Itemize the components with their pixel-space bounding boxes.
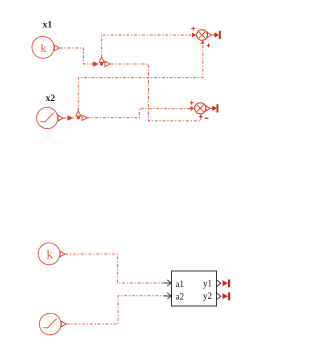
arrow into junction A <box>93 61 99 67</box>
wire ramp to junction B <box>63 117 74 119</box>
svg-text:a2: a2 <box>176 291 185 301</box>
svg-text:x2: x2 <box>46 94 56 104</box>
sign plus P1 input 2 <box>207 43 211 47</box>
output port y2 <box>203 291 221 301</box>
arrow into P1 input 1 <box>192 33 197 37</box>
sign plus P1 input 1 <box>191 27 195 31</box>
terminal at y1 <box>223 279 231 287</box>
input port a2 <box>164 291 184 301</box>
wire junction A to product P2 input 2 <box>110 64 201 121</box>
svg-text:a1: a1 <box>176 279 185 289</box>
arrow into P1 input 2 <box>201 40 205 44</box>
source block k bottom <box>38 243 65 265</box>
output port y1 <box>203 279 221 289</box>
product block P1 <box>197 30 212 41</box>
svg-text:k: k <box>46 247 53 262</box>
source block ramp bottom <box>39 313 66 335</box>
wire ramp to superblock input a2 <box>66 296 167 324</box>
source block X1 constant k <box>32 36 59 58</box>
junction B right-branch arrow <box>82 115 87 120</box>
svg-text:y2: y2 <box>203 291 212 301</box>
junction A up-branch arrow <box>99 57 104 62</box>
wire k to junction A <box>60 48 98 64</box>
arrow into junction B <box>67 115 73 121</box>
terminal at y2 <box>223 292 231 300</box>
svg-text:y1: y1 <box>203 279 212 289</box>
source block X2 ramp <box>37 107 64 128</box>
wire junction B to product P2 input 1 <box>87 109 190 118</box>
junction A <box>100 62 103 65</box>
superblock <box>172 271 217 306</box>
sign minus P2 input 2 <box>205 117 209 119</box>
arrow into P2 input 1 <box>190 106 194 110</box>
junction A right-branch arrow <box>105 61 110 66</box>
output terminal of P1 <box>211 31 221 39</box>
sign plus P2 input 1 <box>190 101 194 105</box>
output terminal of P2 <box>210 104 218 112</box>
wire junction B to product P1 input 2 <box>78 44 203 111</box>
product block P2 <box>195 103 211 114</box>
arrow into P2 input 2 <box>199 114 203 118</box>
wire k to superblock input a1 <box>65 254 167 283</box>
junction B up-branch arrow <box>76 111 81 116</box>
svg-text:k: k <box>41 41 47 55</box>
wire junction A to product P1 input 1 <box>102 35 192 57</box>
input port a1 <box>164 279 184 289</box>
svg-text:x1: x1 <box>43 21 53 31</box>
junction B <box>77 116 80 119</box>
